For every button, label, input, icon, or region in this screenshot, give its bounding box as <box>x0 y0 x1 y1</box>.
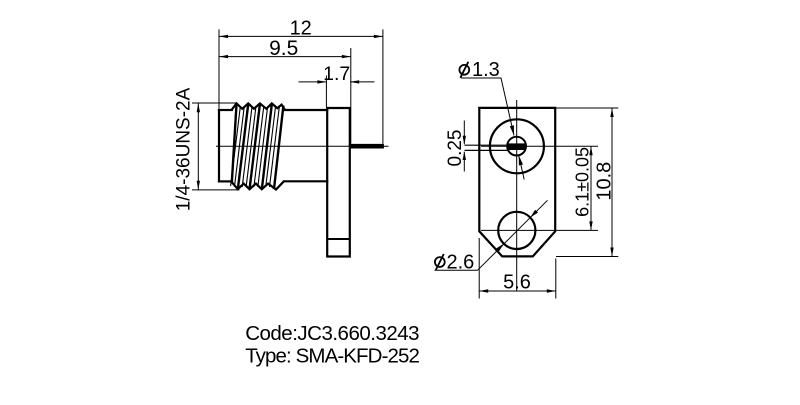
dim 12 arrows <box>219 35 228 38</box>
dim 0.25 arrows <box>463 136 466 145</box>
mounting hole circle <box>498 212 535 249</box>
dim 6.1 line <box>590 146 592 230</box>
flange side view <box>327 108 350 257</box>
dim 10.8 extension lines <box>556 108 618 257</box>
dim 1.7 tails <box>299 81 375 83</box>
front vertical centerline <box>516 100 518 291</box>
dia 1.3 arrows <box>510 125 514 135</box>
dia 2.6 arrows <box>496 244 504 252</box>
svg-text:Code:JC3.660.3243: Code:JC3.660.3243 <box>245 322 419 345</box>
center pin side view <box>350 144 384 149</box>
centerline left view <box>216 145 389 147</box>
dia 2.6 leader <box>435 200 548 270</box>
dim 9.5 arrows <box>219 55 228 58</box>
dia 2.6 symbol <box>435 257 445 267</box>
thread helix thin lines <box>231 106 280 187</box>
svg-text:Type: SMA-KFD-252: Type: SMA-KFD-252 <box>245 344 419 367</box>
thread spec extension lines <box>192 103 240 190</box>
thread helix thick lines <box>232 104 284 189</box>
dim 1.7 arrows <box>317 80 326 83</box>
svg-text:0.25: 0.25 <box>445 130 466 167</box>
dim 9.5 line <box>219 56 351 58</box>
dim 9.5 extension line <box>350 48 352 144</box>
connector body outline <box>219 110 327 181</box>
dim 10.8 arrows <box>610 108 613 117</box>
thread spec arrows <box>197 103 200 112</box>
svg-text:10.8: 10.8 <box>593 162 615 201</box>
interface circle <box>490 119 544 173</box>
thread crest zigzag bottom <box>232 181 285 189</box>
svg-text:1.3: 1.3 <box>472 59 500 81</box>
front pin horizontal centerline <box>481 145 598 147</box>
dia 1.3 symbol <box>459 65 469 75</box>
slot lines <box>465 145 508 150</box>
front hole horizontal centerline <box>481 229 598 231</box>
dim 6.1 arrows <box>589 146 592 155</box>
dim 5.6 arrows <box>479 289 488 292</box>
thread spec dim line <box>197 103 199 189</box>
thread crest zigzag top <box>232 103 286 110</box>
svg-text:1.7: 1.7 <box>323 63 350 85</box>
flange side chamfer line <box>327 238 350 240</box>
dim 0.25 lines <box>463 121 465 172</box>
dim 5.6 extension lines <box>479 238 556 299</box>
svg-text:6.1±0.05: 6.1±0.05 <box>573 147 593 217</box>
dim 12 line <box>219 35 383 37</box>
pin circle <box>507 137 526 156</box>
dim 1.7 extension line <box>325 76 327 108</box>
svg-text:1/4-36UNS-2A: 1/4-36UNS-2A <box>174 87 195 211</box>
svg-text:2.6: 2.6 <box>447 252 475 274</box>
dim 10.8 line <box>611 108 613 257</box>
svg-text:5.6: 5.6 <box>503 271 531 293</box>
flange front view outline <box>479 108 555 257</box>
dim 12 extension lines <box>219 29 383 143</box>
dia 1.3 leader <box>461 78 524 180</box>
dim 5.6 line <box>479 290 556 292</box>
svg-text:9.5: 9.5 <box>269 37 298 60</box>
